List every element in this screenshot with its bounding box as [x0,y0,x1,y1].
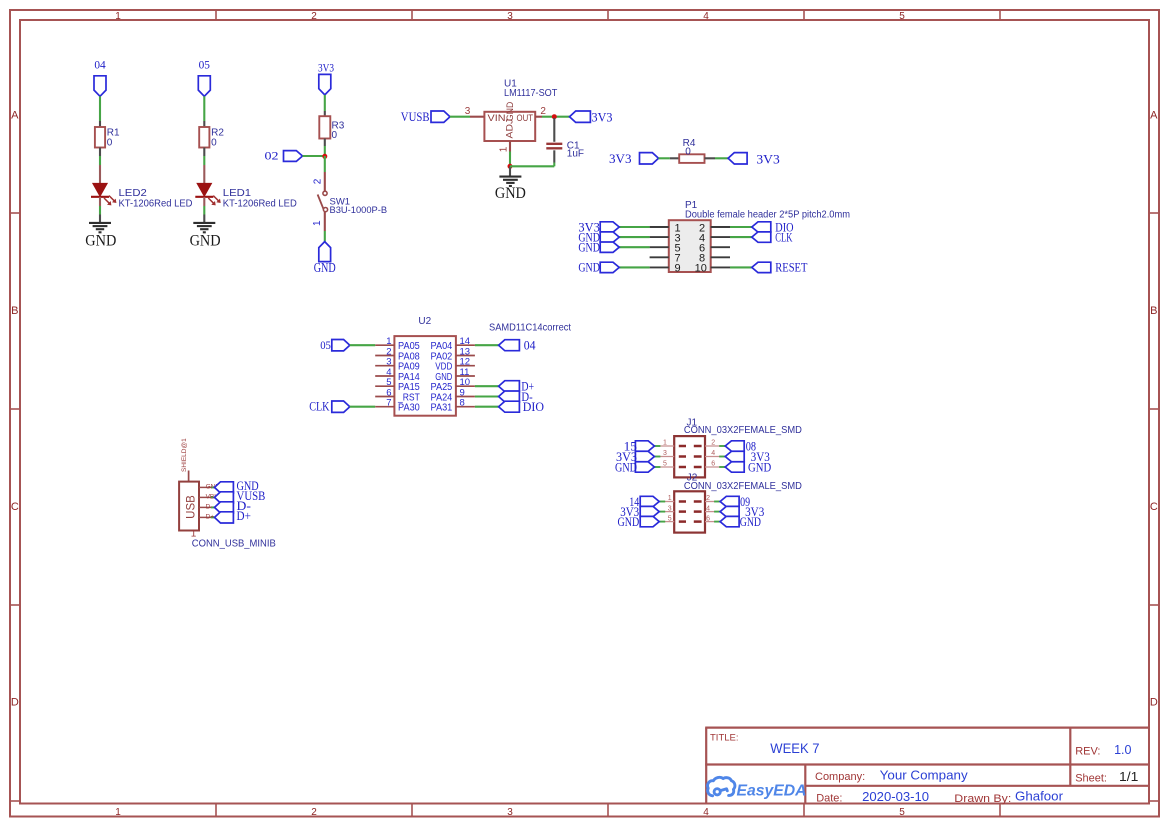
svg-text:1.0: 1.0 [1114,743,1131,757]
svg-text:1: 1 [115,807,121,818]
svg-text:B: B [1150,305,1157,317]
svg-text:3V3: 3V3 [756,152,779,166]
svg-text:3: 3 [465,106,471,117]
svg-text:2: 2 [311,11,317,22]
svg-text:D+: D+ [237,509,251,523]
svg-text:5: 5 [668,515,672,522]
svg-text:1: 1 [115,11,121,22]
svg-text:2: 2 [706,495,710,502]
svg-text:D: D [1150,697,1158,709]
svg-text:Your Company: Your Company [880,768,969,783]
svg-text:2020-03-10: 2020-03-10 [862,789,929,804]
svg-text:10: 10 [695,263,707,275]
svg-text:CLK: CLK [775,229,793,244]
svg-text:4: 4 [703,807,709,818]
svg-text:4: 4 [703,11,709,22]
svg-text:D+: D+ [206,513,215,520]
svg-text:4: 4 [706,505,710,512]
svg-text:5: 5 [663,461,667,468]
svg-text:3V3: 3V3 [609,152,632,166]
svg-text:0: 0 [107,138,113,149]
svg-text:LM1117-SOT: LM1117-SOT [504,88,557,99]
svg-text:GND: GND [615,459,637,474]
svg-text:B: B [11,305,18,317]
svg-text:Date:: Date: [816,792,842,804]
svg-text:U2: U2 [418,316,431,327]
svg-text:CONN_03X2FEMALE_SMD: CONN_03X2FEMALE_SMD [684,424,802,436]
svg-text:A: A [1150,110,1158,122]
svg-text:3: 3 [507,11,513,22]
svg-text:PA31: PA31 [431,403,453,414]
svg-text:SHIELD@1: SHIELD@1 [181,438,188,472]
svg-text:D-: D- [206,503,213,510]
svg-text:GND: GND [578,260,600,275]
svg-text:2: 2 [540,106,546,117]
svg-text:RESET: RESET [775,260,807,275]
svg-text:9: 9 [674,263,680,275]
svg-text:1: 1 [663,440,667,447]
svg-text:6: 6 [711,461,715,468]
svg-text:ADJ: ADJ [505,118,516,138]
svg-text:GND: GND [314,260,336,275]
svg-text:02: 02 [265,148,279,162]
svg-text:DIO: DIO [523,400,544,414]
svg-text:Drawn By:: Drawn By: [954,793,1011,805]
svg-text:PA30: PA30 [398,403,420,414]
svg-text:C: C [1150,501,1158,513]
svg-text:3: 3 [507,807,513,818]
svg-text:5: 5 [899,807,905,818]
svg-text:3V3: 3V3 [318,61,334,75]
svg-text:VIN: VIN [488,113,506,124]
svg-text:KT-1206Red LED: KT-1206Red LED [223,199,297,210]
svg-text:0: 0 [332,130,338,141]
svg-text:LED1: LED1 [223,188,252,199]
svg-text:GND: GND [85,231,116,250]
svg-text:1: 1 [498,146,509,152]
svg-text:OUT: OUT [517,113,534,124]
svg-text:VUSB: VUSB [401,110,430,124]
svg-text:D: D [11,697,19,709]
svg-text:SAMD11C14correct: SAMD11C14correct [489,322,571,333]
svg-text:1uF: 1uF [567,148,584,159]
svg-text:EasyEDA: EasyEDA [737,782,807,799]
svg-text:GND: GND [618,514,640,529]
svg-text:GND: GND [578,240,600,255]
svg-text:GND: GND [495,183,526,202]
svg-text:3: 3 [663,450,667,457]
svg-text:2: 2 [311,807,317,818]
svg-text:4: 4 [711,450,715,457]
svg-text:GND: GND [740,514,761,529]
svg-text:1/1: 1/1 [1119,770,1138,784]
svg-text:2: 2 [312,178,323,184]
svg-text:CLK: CLK [309,400,329,414]
svg-text:05: 05 [199,58,210,72]
svg-text:GND: GND [748,459,771,474]
svg-text:A: A [11,110,19,122]
svg-text:WEEK 7: WEEK 7 [770,741,819,756]
svg-text:REV:: REV: [1075,746,1100,758]
svg-text:Ghafoor: Ghafoor [1015,789,1064,804]
svg-text:Double female header 2*5P pitc: Double female header 2*5P pitch2.0mm [685,209,850,220]
svg-text:KT-1206Red LED: KT-1206Red LED [119,199,193,210]
svg-text:3: 3 [668,505,672,512]
svg-text:1: 1 [312,220,323,226]
svg-text:Sheet:: Sheet: [1075,773,1107,785]
svg-text:TITLE:: TITLE: [710,733,739,744]
svg-text:7: 7 [386,398,391,409]
svg-text:Company:: Company: [815,771,865,783]
svg-text:GND: GND [505,102,516,122]
svg-text:05: 05 [320,338,331,352]
svg-text:6: 6 [706,515,710,522]
svg-text:04: 04 [524,339,537,353]
svg-text:1: 1 [668,495,672,502]
svg-text:04: 04 [94,58,105,72]
svg-text:3V3: 3V3 [592,110,613,124]
svg-text:GND: GND [190,231,221,250]
svg-text:CONN_USB_MINIB: CONN_USB_MINIB [192,538,276,550]
svg-text:LED2: LED2 [119,188,148,199]
svg-text:B3U-1000P-B: B3U-1000P-B [330,205,388,216]
svg-text:8: 8 [460,398,465,409]
svg-text:2: 2 [711,440,715,447]
svg-text:C: C [11,501,19,513]
svg-text:0: 0 [211,138,217,149]
svg-text:5: 5 [899,11,905,22]
svg-text:0: 0 [685,147,691,158]
svg-text:USB: USB [185,495,197,519]
